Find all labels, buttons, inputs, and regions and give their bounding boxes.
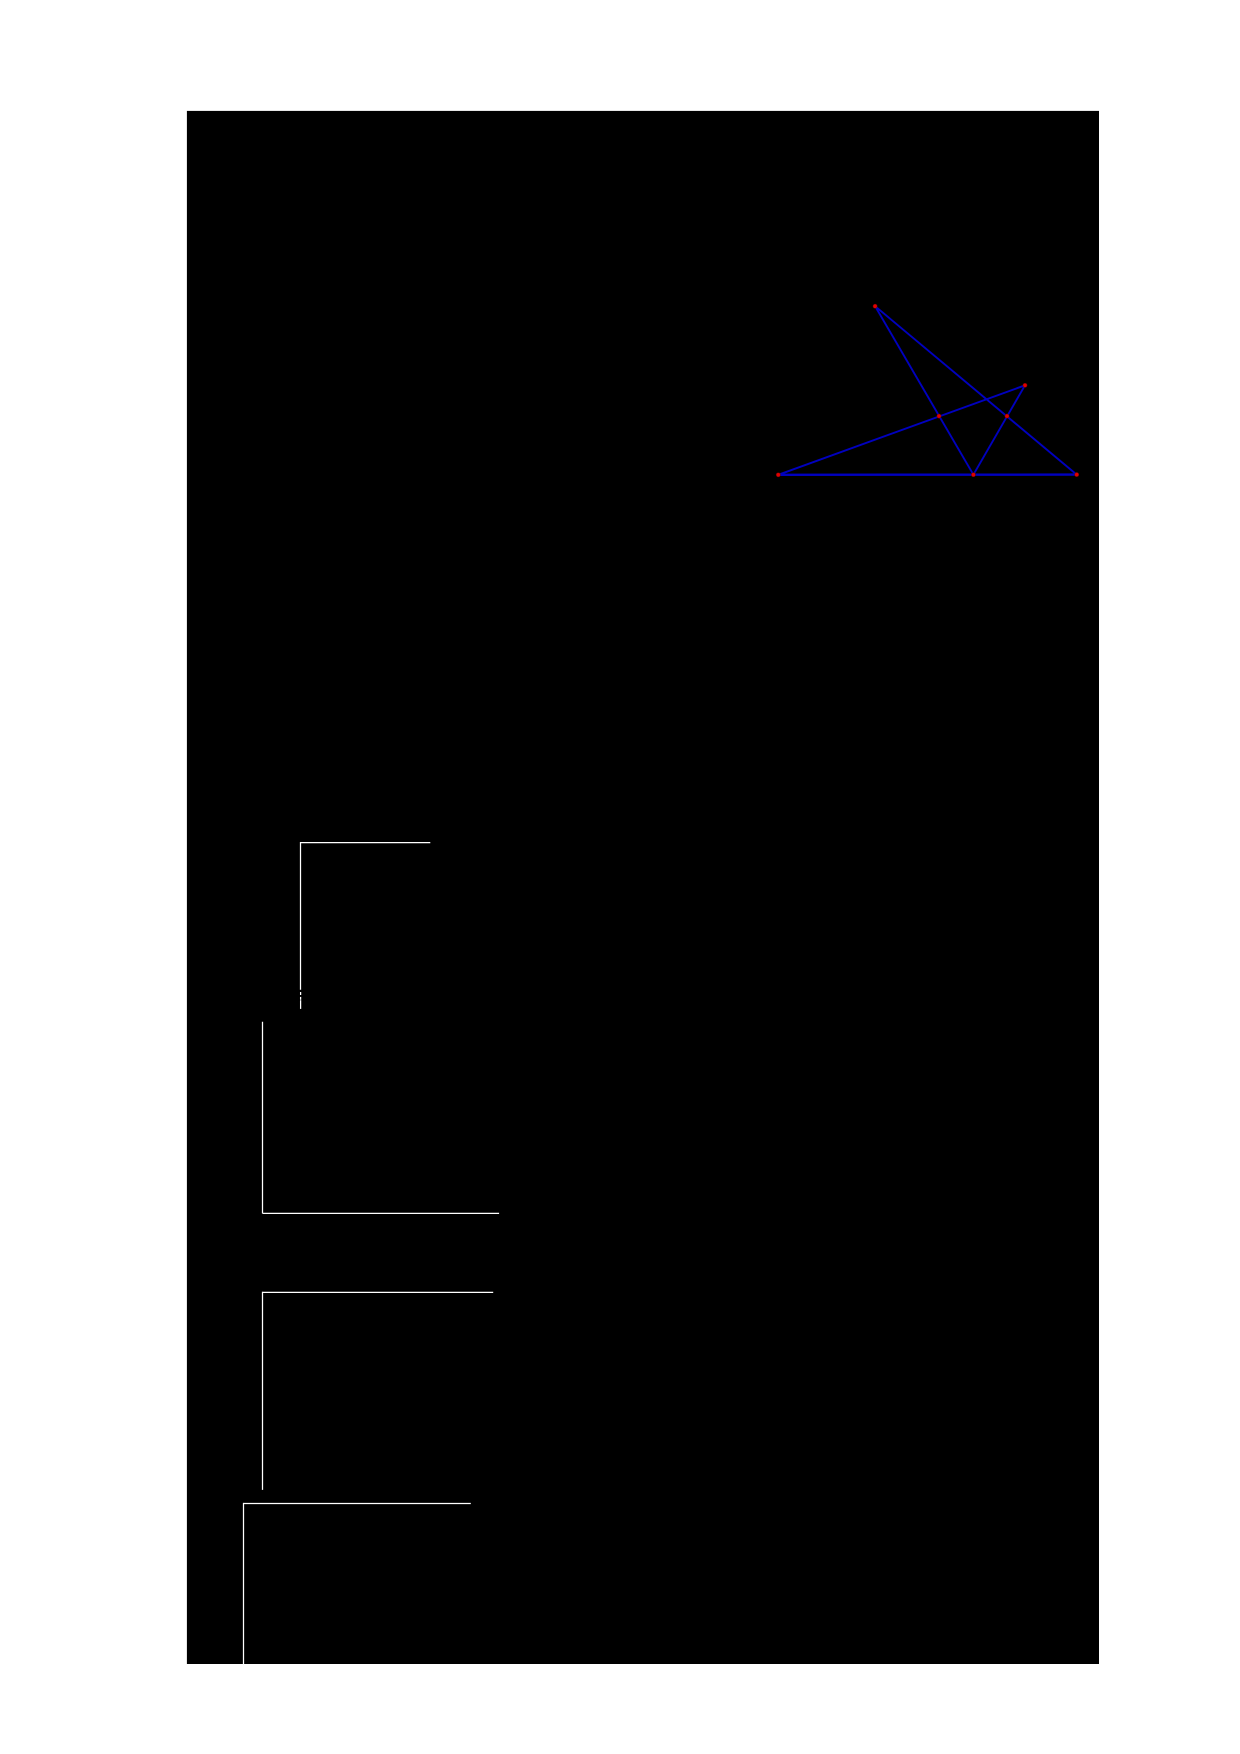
white frame A left rule: [300, 842, 302, 990]
point BM: [971, 472, 976, 477]
point ML: [937, 414, 942, 419]
white frame A dash 3: [300, 1000, 302, 1009]
white frame B bottom rule: [263, 1212, 500, 1214]
white frame C top rule: [263, 1291, 494, 1293]
white frame D left rule: [243, 1503, 245, 1664]
segment T-BR: [875, 306, 1077, 474]
white frame A top rule: [301, 842, 431, 844]
white frame A dash 2: [300, 997, 302, 1000]
segment BL-BR (base): [778, 473, 1076, 476]
white frame A dash 1: [300, 992, 302, 995]
white frame B left rule: [262, 1022, 264, 1214]
point R: [1023, 383, 1028, 388]
point T: [873, 304, 878, 309]
segment BM-R: [973, 385, 1025, 474]
page background (black document body): [187, 111, 1099, 1664]
white frame D top rule: [244, 1503, 471, 1505]
white frame C left rule: [262, 1292, 264, 1490]
point BL: [776, 472, 781, 477]
segment BL-R: [778, 385, 1025, 475]
point BR: [1074, 472, 1079, 477]
point MR: [1005, 414, 1010, 419]
geometry figure: segment T-BM: [875, 306, 973, 475]
